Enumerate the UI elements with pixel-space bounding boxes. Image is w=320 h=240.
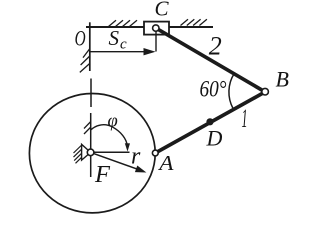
svg-text:F: F — [94, 161, 111, 188]
svg-text:1: 1 — [242, 104, 248, 133]
svg-text:φ: φ — [108, 111, 118, 131]
svg-text:2: 2 — [209, 32, 222, 61]
svg-text:O: O — [75, 26, 86, 51]
svg-text:B: B — [276, 66, 289, 91]
svg-text:r: r — [131, 144, 141, 170]
svg-text:D: D — [206, 126, 223, 151]
svg-text:A: A — [157, 151, 174, 175]
svg-text:C: C — [155, 0, 170, 20]
svg-text:60°: 60° — [200, 77, 227, 102]
